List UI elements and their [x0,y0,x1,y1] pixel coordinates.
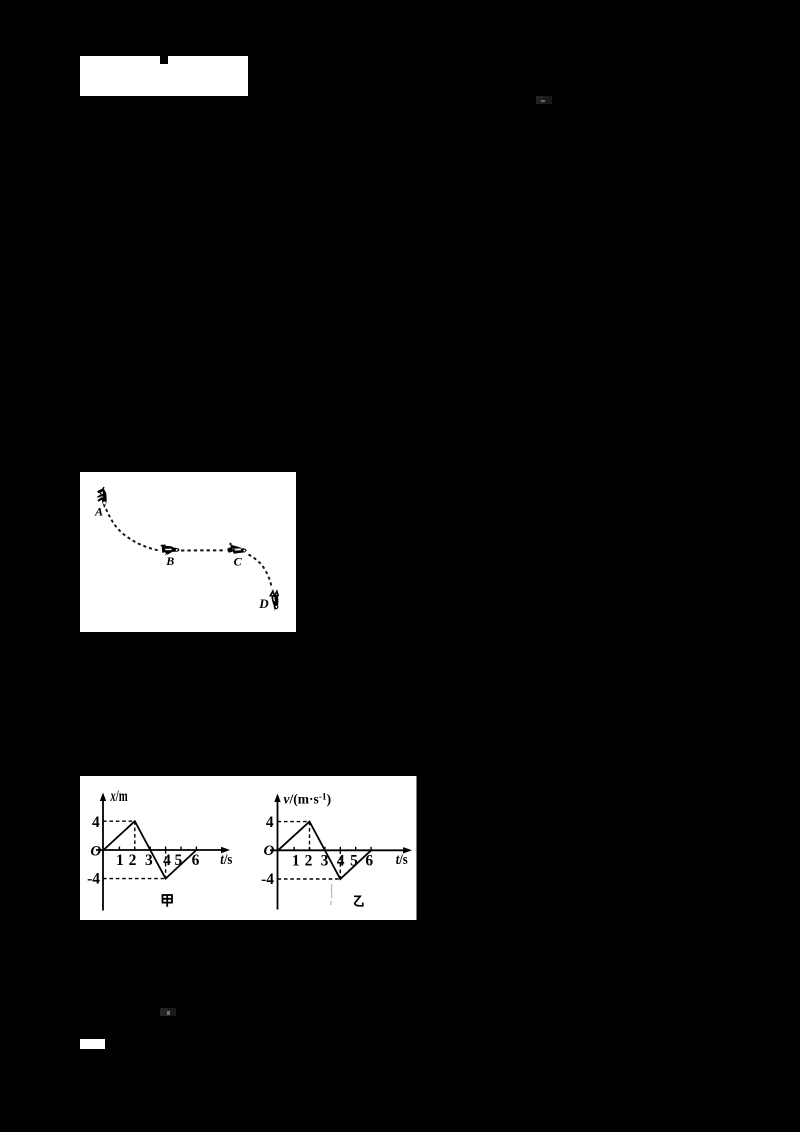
faint scratch [331,884,332,905]
x-axis [96,849,226,851]
svg-text:4: 4 [92,814,100,831]
svg-text:5: 5 [174,852,182,869]
svg-text:1: 1 [292,852,300,869]
y-axis [277,798,279,910]
dashed trajectory B-C [181,549,226,551]
svg-text:3: 3 [145,852,153,869]
svg-text:3: 3 [321,852,329,869]
svg-text:A: A [94,504,103,518]
rocket D [270,591,279,611]
title box (white redacted block) [80,56,248,96]
data line v-t [278,821,371,878]
svg-text:4: 4 [266,814,274,831]
faint badge top [536,96,544,104]
yi character [354,896,363,906]
rocket B [160,544,179,555]
svg-text:B: B [165,553,174,567]
faint badge bottom [160,1008,168,1016]
svg-text:O: O [264,843,275,859]
svg-text:C: C [234,554,243,568]
jia character [163,895,173,907]
dashed guides [103,821,166,878]
svg-text:5: 5 [350,852,358,869]
dashed trajectory C-D [249,554,272,588]
dashed guides [278,821,341,878]
svg-text:O: O [90,843,101,859]
svg-text:1: 1 [116,852,124,869]
rocket C [227,542,246,553]
y-axis [102,797,104,911]
svg-text:D: D [258,596,269,611]
svg-text:-4: -4 [87,870,100,887]
white bar bottom-left [80,1039,105,1049]
svg-text:2: 2 [305,852,313,869]
svg-text:6: 6 [365,852,373,869]
tick numbers [292,852,374,869]
svg-text:t/s: t/s [396,851,409,867]
svg-text:t/s: t/s [220,851,233,867]
x-axis [270,849,408,851]
graphs figure [80,776,417,921]
ticks [119,846,196,850]
notch in title box [160,56,168,64]
y-axis arrowhead [274,793,280,802]
svg-text:6: 6 [192,852,200,869]
svg-text:x/m: x/m [110,787,129,805]
dashed trajectory A-B [106,509,158,550]
svg-text:2: 2 [129,852,137,869]
y-axis arrowhead [100,792,106,801]
svg-text:4: 4 [337,852,345,869]
rocket trajectory figure [80,472,296,633]
x-axis arrowhead [403,847,412,853]
svg-text:4: 4 [163,852,171,869]
ticks [294,846,371,850]
rocket A [97,487,107,508]
x-axis arrowhead [221,846,230,852]
svg-text:-4: -4 [261,871,274,888]
data line x-t [104,821,197,878]
tick numbers [116,852,200,869]
